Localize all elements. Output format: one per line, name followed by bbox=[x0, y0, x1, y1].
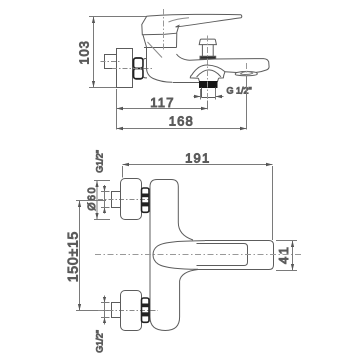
svg-text:G1/2": G1/2" bbox=[95, 150, 105, 173]
svg-text:G1/2": G1/2" bbox=[95, 330, 105, 353]
svg-text:41: 41 bbox=[276, 245, 291, 264]
svg-text:103: 103 bbox=[76, 40, 91, 64]
svg-text:Ø60: Ø60 bbox=[86, 186, 98, 211]
svg-text:150±15: 150±15 bbox=[65, 231, 81, 282]
svg-text:168: 168 bbox=[169, 113, 194, 128]
svg-text:G 1/2": G 1/2" bbox=[227, 86, 252, 96]
svg-text:191: 191 bbox=[185, 151, 210, 166]
svg-text:117: 117 bbox=[150, 95, 174, 110]
